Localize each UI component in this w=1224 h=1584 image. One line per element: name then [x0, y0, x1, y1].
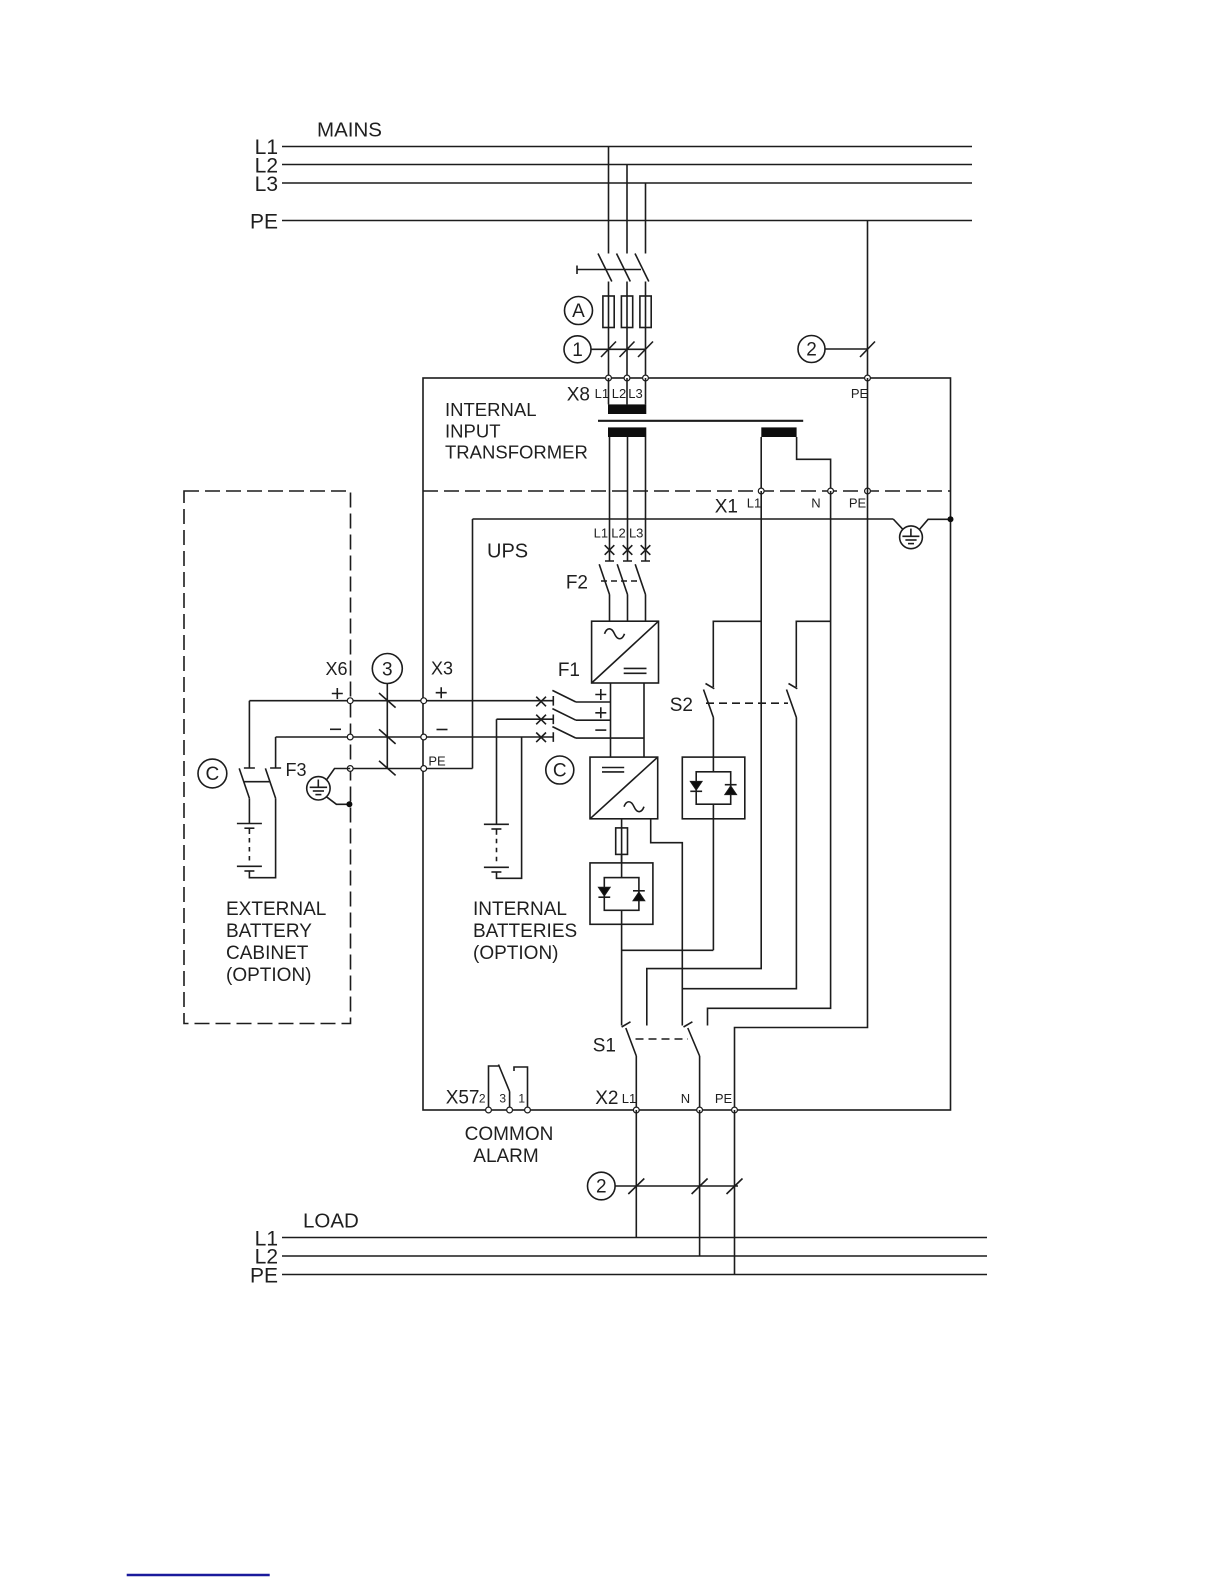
rectifier U1 AC tilde: [605, 629, 625, 639]
static switch V1 thyristor right: [633, 892, 645, 901]
cable slash X2 L1: [628, 1179, 644, 1195]
svg-text:PE: PE: [250, 211, 278, 234]
svg-text:S2: S2: [670, 695, 693, 716]
svg-text:L3: L3: [255, 173, 278, 196]
terminal X2 N: [697, 1107, 703, 1113]
fuse-switch F3 tie: [244, 781, 269, 783]
UPS inner box left edge: [472, 519, 474, 769]
terminal X6 minus: [347, 734, 353, 740]
switch S1 right blade: [688, 1028, 700, 1056]
wire balloon2 leader (bottom): [615, 1185, 738, 1187]
wire L2 drop: [626, 165, 628, 254]
static switch S2 thyristor left: [690, 781, 702, 790]
svg-text:2: 2: [806, 340, 817, 361]
terminal X1 L1: [758, 488, 764, 494]
wire F1 pole2 to DC plus: [576, 719, 611, 721]
wire DC plus bus: [610, 683, 612, 757]
balloon 2 cable marker (top): [798, 336, 825, 363]
svg-text:F2: F2: [566, 573, 588, 594]
svg-text:BATTERIES: BATTERIES: [473, 921, 577, 942]
cable slash L1: [601, 342, 616, 358]
terminal X1 PE: [865, 488, 871, 494]
svg-text:LOAD: LOAD: [303, 1210, 359, 1233]
transformer T1 secondary winding bar (main): [608, 427, 646, 437]
rectifier U1 diagonal: [592, 621, 659, 683]
wire S2 left feed: [713, 621, 761, 687]
external battery cabinet dashed box: [184, 491, 351, 1024]
svg-text:L1: L1: [594, 526, 608, 541]
wire X8 L1 to primary: [608, 378, 610, 404]
fuse-switch F1 pole1 wire and contact: [424, 696, 554, 706]
balloon 3 cable marker: [372, 654, 402, 684]
wire load L1 bus: [282, 1237, 987, 1239]
svg-text:C: C: [553, 761, 567, 782]
wire F2 L2 to rectifier: [627, 595, 629, 622]
svg-text:2: 2: [596, 1177, 607, 1198]
relay contact X57 blade: [499, 1065, 510, 1092]
inverter U2 diagonal: [590, 757, 658, 819]
terminal X2 L1: [633, 1107, 639, 1113]
internal battery cell stack: [484, 823, 509, 825]
switch S1 left contact tick: [622, 1022, 631, 1027]
cable slash minus: [379, 729, 396, 744]
switch S2 left contact tick: [706, 684, 715, 689]
balloon3 stem with slashes: [386, 684, 388, 769]
fuse-switch F3 pole2 wire and contact: [270, 737, 281, 768]
label minus (F1 pole3): [595, 729, 606, 731]
label minus (X3): [437, 729, 448, 731]
svg-text:F3: F3: [286, 760, 307, 780]
ground symbol (UPS chassis): [893, 519, 950, 549]
svg-text:X3: X3: [431, 659, 453, 679]
terminal X8 L3: [643, 375, 649, 381]
disconnect switch pole L3 blade: [635, 254, 649, 282]
cable slash X2 N: [692, 1179, 708, 1195]
svg-text:BATTERY: BATTERY: [226, 921, 312, 942]
svg-text:ALARM: ALARM: [473, 1146, 538, 1167]
relay contact X57 post 2: [489, 1066, 499, 1110]
svg-text:S1: S1: [593, 1036, 616, 1057]
terminal X6 PE: [347, 766, 353, 772]
connector X mark L3: [641, 545, 651, 561]
cable slash PE: [379, 761, 396, 776]
fuse-switch F1 pole3 wire and contact: [424, 732, 554, 742]
wire inverter output to fuse: [621, 819, 623, 863]
wire battery PE: [350, 768, 472, 770]
svg-text:INTERNAL: INTERNAL: [473, 899, 567, 920]
svg-text:N: N: [811, 496, 820, 511]
wire L1 to fuse: [608, 282, 610, 379]
wire F1 pole1 to DC plus: [576, 701, 611, 703]
static switch V1 thyristor left: [598, 887, 610, 896]
wire fuse to static switch: [621, 854, 623, 863]
terminal X57 1: [525, 1107, 531, 1113]
svg-text:1: 1: [572, 340, 583, 361]
wire S2 left pole to static box: [712, 718, 714, 758]
wire L2 to fuse: [626, 282, 628, 379]
wire mains L2 bus: [282, 164, 972, 166]
svg-text:COMMON: COMMON: [465, 1124, 554, 1145]
svg-text:X57: X57: [446, 1088, 480, 1109]
wire F2 L3 to rectifier: [645, 595, 647, 622]
wire S2 right feed: [796, 621, 830, 687]
svg-text:PE: PE: [250, 1265, 278, 1288]
connector X mark L1: [605, 545, 615, 561]
switch S1 right contact tick: [684, 1022, 693, 1027]
inverter U2 box: [590, 757, 658, 819]
svg-text:PE: PE: [428, 754, 446, 769]
svg-text:CABINET: CABINET: [226, 943, 309, 964]
static switch S2 thyristor right: [725, 786, 737, 795]
fuse-switch F1 pole2 wire and contact: [497, 715, 554, 725]
breaker F2 pole L2 blade: [617, 564, 627, 594]
svg-text:1: 1: [518, 1092, 525, 1106]
relay contact X57 post 1: [514, 1067, 528, 1110]
inverter U2 AC tilde: [624, 802, 644, 812]
fuse-switch F1 pole3 blade: [552, 727, 576, 739]
wire balloon2 leader: [825, 348, 868, 350]
terminal X57 3: [507, 1107, 513, 1113]
svg-text:PE: PE: [715, 1091, 733, 1106]
wire load L2 bus: [282, 1255, 987, 1257]
static switch V1 inner frame: [621, 863, 623, 878]
switch S1 dashed tie: [636, 1038, 689, 1040]
wire X8 L3 to primary: [645, 378, 647, 404]
switch S2 dashed tie: [706, 702, 788, 704]
relay contact X57 post 3: [509, 1092, 511, 1111]
wire mains L3 bus: [282, 182, 972, 184]
label plus (X3): [436, 687, 447, 698]
svg-text:A: A: [572, 301, 585, 322]
wire static switch output: [621, 924, 623, 1025]
wire secondary L3 down: [645, 437, 647, 561]
balloon C (external battery): [198, 759, 227, 788]
svg-text:X1: X1: [715, 497, 738, 518]
junction dot external earth: [346, 801, 352, 807]
terminal X3 PE: [421, 766, 427, 772]
svg-text:INPUT: INPUT: [445, 421, 501, 442]
svg-text:L3: L3: [629, 526, 643, 541]
wire DC minus bus: [643, 683, 645, 757]
rectifier U1 DC bars: [624, 668, 647, 673]
fuse A phase L2: [621, 296, 632, 328]
svg-text:L3: L3: [628, 386, 642, 401]
wire inverter output right branch: [651, 819, 683, 1026]
wire bypass secondary L1 down: [760, 437, 762, 491]
cable slash L2: [620, 342, 635, 358]
switch S2 right blade: [787, 690, 797, 718]
terminal X3 minus: [421, 734, 427, 740]
terminal X6 plus: [347, 698, 353, 704]
svg-text:L1: L1: [747, 496, 761, 511]
wire static output junction to bypass: [622, 949, 714, 951]
terminal X8 L1: [606, 375, 612, 381]
wire S1 right pole to X2 N: [699, 1056, 701, 1110]
transformer T1 core line: [598, 420, 803, 422]
label plus (F1 pole1): [595, 689, 606, 700]
svg-text:3: 3: [382, 660, 393, 681]
svg-text:(OPTION): (OPTION): [473, 943, 559, 964]
transformer T1 primary winding bar: [608, 404, 646, 414]
wire L3 to fuse: [645, 282, 647, 379]
label plus (F1 pole2): [595, 707, 606, 718]
fuse-switch F3 pole1 blade: [239, 768, 249, 798]
label minus (X6): [330, 728, 341, 730]
svg-text:UPS: UPS: [487, 541, 528, 563]
svg-text:X2: X2: [595, 1088, 618, 1109]
balloon C (internal battery): [546, 756, 574, 784]
fuse F4 (inverter output): [616, 828, 628, 855]
wire X2 L1 to load: [635, 1110, 637, 1238]
wire secondary L1 down: [609, 437, 611, 561]
wire L1 drop: [608, 147, 610, 254]
wire battery plus X6 to X3: [249, 700, 423, 702]
label plus (X6): [332, 688, 343, 699]
fuse-switch F1 pole2 X mark: [536, 715, 546, 725]
svg-text:INTERNAL: INTERNAL: [445, 399, 537, 420]
breaker F2 pole L1 blade: [599, 564, 609, 594]
switch S1 left blade: [626, 1028, 637, 1056]
svg-text:PE: PE: [851, 386, 869, 401]
wire balloon1 leader: [591, 348, 646, 350]
static switch S2 inner frame: [712, 757, 714, 772]
fuse-switch F3 pole1 wire and contact: [244, 701, 255, 768]
wire F2 L1 to rectifier: [609, 595, 611, 622]
svg-text:L2: L2: [612, 386, 626, 401]
breaker F2 pole L3 blade: [635, 564, 645, 594]
wire bypass secondary N step: [797, 437, 831, 491]
terminal X2 PE: [732, 1107, 738, 1113]
svg-text:PE: PE: [849, 496, 867, 511]
svg-text:X6: X6: [325, 659, 347, 679]
transformer T1 secondary winding bar (bypass): [761, 427, 796, 437]
terminal X3 plus: [421, 698, 427, 704]
wire S2 static output: [712, 819, 714, 951]
static switch V1 box: [590, 863, 653, 924]
wire X8 L2 to primary: [626, 378, 628, 404]
ground symbol (external cabinet): [307, 769, 351, 805]
junction dot UPS box earth: [948, 516, 954, 522]
svg-text:C: C: [206, 764, 220, 785]
fuse-switch F1 pole1 blade: [552, 690, 576, 702]
wire mains L1 bus: [282, 146, 972, 148]
svg-text:X8: X8: [567, 385, 590, 406]
balloon 2 cable marker (bottom): [588, 1172, 616, 1200]
wire battery minus X6 to X3: [276, 736, 424, 738]
static switch S2 box: [682, 757, 745, 819]
dashed separator X1 line: [423, 490, 951, 492]
wire secondary L2 down: [627, 437, 629, 561]
disconnect switch pole L1 blade: [598, 254, 612, 282]
inverter U2 DC bars: [602, 768, 624, 772]
wire F1 pole3 to DC minus: [576, 737, 644, 739]
wire bypass L1 down: [647, 491, 761, 1026]
wire L3 drop: [645, 183, 647, 254]
cable slash plus: [379, 693, 396, 708]
rectifier U1 box: [592, 621, 659, 683]
wire X2 N to load: [699, 1110, 701, 1256]
external battery cell stack: [248, 798, 250, 823]
svg-text:L2: L2: [611, 526, 625, 541]
fuse-switch F3 pole2 blade: [265, 768, 275, 798]
UPS cabinet outer box: [423, 378, 951, 1110]
fuse-switch F1 pole2 blade: [552, 709, 576, 721]
svg-text:F1: F1: [558, 660, 580, 681]
terminal X8 PE: [865, 375, 871, 381]
svg-text:MAINS: MAINS: [317, 119, 382, 142]
balloon 1 cable marker: [564, 336, 591, 363]
terminal X1 N: [828, 488, 834, 494]
switch S2 right contact tick: [789, 684, 798, 689]
svg-text:L1: L1: [595, 386, 609, 401]
svg-text:EXTERNAL: EXTERNAL: [226, 899, 326, 920]
switch S2 left blade: [704, 690, 714, 718]
wire PE inside cabinet: [735, 378, 868, 1110]
wire mains PE bus: [282, 220, 972, 222]
svg-text:TRANSFORMER: TRANSFORMER: [445, 442, 588, 463]
balloon A fuse designator: [565, 297, 593, 325]
terminal X57 2: [486, 1107, 492, 1113]
cable slash PE: [860, 342, 875, 358]
fuse-switch F1 pole3 X mark: [536, 733, 546, 743]
fuse A phase L3: [640, 296, 651, 328]
breaker F2 dashed tie: [601, 580, 641, 582]
footer blue line: [127, 1574, 270, 1576]
svg-text:2: 2: [479, 1092, 486, 1106]
svg-text:N: N: [681, 1091, 690, 1106]
cable slash L3: [638, 342, 653, 358]
terminal X8 L2: [624, 375, 630, 381]
wire X2 PE to load: [734, 1110, 736, 1275]
wire bypass N down: [708, 491, 831, 1026]
wire S2 right pole down: [682, 718, 796, 989]
svg-text:3: 3: [499, 1092, 506, 1106]
fuse A phase L1: [603, 296, 614, 328]
UPS inner box top edge: [473, 518, 894, 520]
wire S1 left pole to X2 L1: [635, 1056, 637, 1110]
svg-text:(OPTION): (OPTION): [226, 965, 312, 986]
internal battery riser plus: [496, 719, 498, 824]
wire PE drop: [867, 221, 869, 379]
connector X mark L2: [623, 545, 633, 561]
wire load PE bus: [282, 1274, 987, 1276]
fuse-switch F1 pole1 X mark: [536, 697, 546, 707]
disconnect switch tie bar: [577, 266, 641, 275]
disconnect switch pole L2 blade: [617, 254, 631, 282]
cable slash X2 PE: [727, 1179, 743, 1195]
svg-text:L1: L1: [622, 1091, 636, 1106]
